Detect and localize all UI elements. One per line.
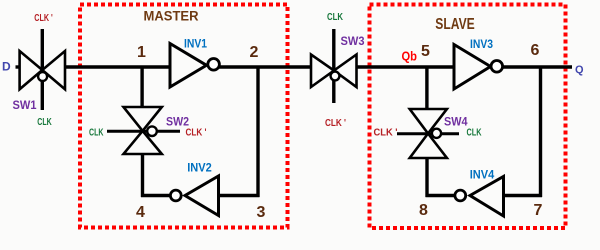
svg-text:1: 1: [137, 44, 146, 61]
svg-text:INV1: INV1: [184, 37, 207, 51]
svg-text:CLK: CLK: [467, 126, 482, 138]
svg-text:Q: Q: [575, 64, 584, 76]
svg-text:6: 6: [531, 42, 540, 59]
svg-text:3: 3: [257, 204, 266, 221]
svg-text:INV4: INV4: [470, 168, 495, 182]
svg-text:SLAVE: SLAVE: [435, 16, 475, 33]
svg-text:SW1: SW1: [13, 98, 37, 112]
svg-text:SW4: SW4: [444, 114, 468, 128]
svg-text:CLK ': CLK ': [34, 12, 53, 24]
svg-text:INV2: INV2: [187, 161, 212, 175]
svg-text:8: 8: [419, 202, 428, 219]
svg-text:CLK: CLK: [89, 126, 104, 138]
svg-text:SW3: SW3: [341, 34, 365, 48]
svg-text:2: 2: [250, 44, 259, 61]
svg-text:CLK ': CLK ': [374, 127, 398, 139]
svg-text:Qb: Qb: [402, 49, 418, 64]
svg-text:MASTER: MASTER: [144, 9, 199, 24]
svg-text:D: D: [2, 60, 11, 74]
svg-text:5: 5: [421, 43, 430, 60]
svg-text:CLK: CLK: [37, 116, 52, 128]
svg-text:7: 7: [534, 202, 543, 219]
svg-text:CLK ': CLK ': [325, 117, 346, 129]
svg-text:CLK: CLK: [327, 11, 343, 23]
svg-text:CLK ': CLK ': [186, 127, 207, 139]
svg-text:4: 4: [136, 204, 145, 221]
svg-text:INV3: INV3: [470, 37, 493, 51]
